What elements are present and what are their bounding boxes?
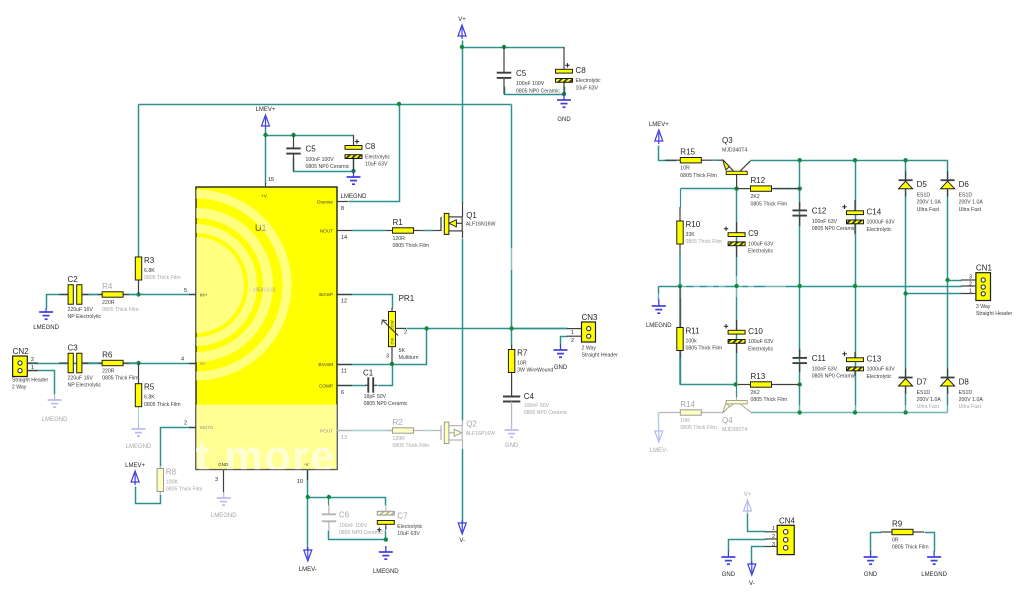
svg-text:0805 NP0 Ceramic: 0805 NP0 Ceramic [306,164,350,170]
svg-text:R14: R14 [680,400,695,409]
power LMEV- R14 [655,428,663,442]
diode D5 [899,171,913,197]
svg-text:2K2: 2K2 [751,194,760,200]
svg-text:MUTE: MUTE [200,425,213,430]
U1 pin 4 stub [189,363,196,365]
wire R9 right to LMEGND [925,533,935,552]
wire Q2 source to V- [462,449,464,525]
wire D6 D8 column [947,278,949,413]
svg-text:8: 8 [341,206,344,212]
svg-text:CN3: CN3 [582,313,599,322]
junction C5b top [291,133,295,137]
svg-text:0805 NP0 Ceramic: 0805 NP0 Ceramic [339,530,383,536]
svg-text:R3: R3 [144,256,155,265]
svg-text:2 Way: 2 Way [582,346,597,352]
svg-text:13: 13 [341,435,347,441]
svg-text:10R: 10R [517,361,527,367]
svg-text:BIASM: BIASM [318,362,333,367]
wire R14 to LMEV- [658,413,660,429]
wire C2 left to ground [47,295,69,309]
ground GND C4 [505,424,519,437]
wire V+ to CN4 pin1 [748,513,766,532]
transistor Q2 [441,422,462,443]
ground LMEGND CN2 [48,394,62,407]
U1 pin 6 stub [337,385,352,387]
power LMEV+ right [655,130,663,144]
svg-text:0805 Thick Film: 0805 Thick Film [892,545,929,551]
transistor Q1 [441,213,462,234]
svg-text:LMEGND: LMEGND [921,572,947,578]
ground GND R9 [864,551,878,564]
wire wash watermark feedback line [504,248,520,270]
wire C1 to BIASM node [378,365,393,386]
svg-text:C5: C5 [516,69,527,78]
wire C14 column [855,161,857,287]
U1 pin 13 stub [337,430,352,432]
svg-text:GND: GND [505,443,519,449]
svg-text:LMEGND: LMEGND [126,444,152,450]
svg-text:4: 4 [181,357,184,363]
junction rail C14 [853,158,857,162]
resistor R13 [738,382,800,387]
svg-text:R13: R13 [751,372,766,381]
wire R11 column [681,287,736,385]
svg-text:100nF 50V: 100nF 50V [524,403,550,409]
svg-text:NP Electrolytic: NP Electrolytic [68,382,102,388]
svg-text:Q3: Q3 [722,136,733,145]
junction bottom C13 [853,410,857,414]
svg-text:PR1: PR1 [399,294,415,303]
junction Q3 base [734,186,738,190]
wire C5b C8b bottom LMEGND [294,159,354,172]
wire C6 C7 bottom join [329,531,386,540]
svg-text:0805 Thick Film: 0805 Thick Film [144,402,181,408]
junction C7 gnd [384,537,388,541]
svg-text:0805 Thick Film: 0805 Thick Film [102,376,139,382]
junction R13 node [733,382,737,386]
svg-text:6.8K: 6.8K [144,268,155,274]
svg-text:33K: 33K [686,232,696,238]
svg-text:R8: R8 [166,468,177,477]
svg-text:12: 12 [341,299,347,305]
wire output net [407,328,568,330]
svg-text:IN-: IN- [200,361,207,366]
svg-text:220uF 16V: 220uF 16V [68,307,94,313]
svg-text:1000uF 63V: 1000uF 63V [867,367,896,373]
svg-text:C9: C9 [748,229,759,238]
junction R12 C12 [798,186,802,190]
resistor R12 [738,186,800,191]
svg-text:ES1D: ES1D [917,193,931,199]
junction bottom C11 [798,410,802,414]
svg-text:C8: C8 [365,142,376,151]
svg-text:0805 NP0 Ceramic: 0805 NP0 Ceramic [516,88,560,94]
svg-text:R15: R15 [680,148,695,157]
svg-text:ES1D: ES1D [917,390,931,396]
svg-text:NP Electrolytic: NP Electrolytic [68,314,102,320]
capacitor C2 [59,285,91,305]
svg-text:3: 3 [969,275,972,281]
junction rail C12 [798,158,802,162]
svg-text:Straight Header: Straight Header [582,353,619,359]
svg-text:MJD340T4: MJD340T4 [722,148,747,154]
svg-text:LMEV-: LMEV- [299,567,317,573]
svg-text:C5: C5 [306,145,317,154]
junction LMEV+ node [263,133,267,137]
capacitor C5 [497,47,512,94]
wire mid rail to ground [658,287,660,301]
svg-text:Osense: Osense [317,200,334,205]
wire BIASP to PR1 [338,295,393,309]
wire V+ rail top [463,47,565,49]
capacitor C4 [503,393,520,424]
resistor R6 [82,360,139,365]
svg-text:BIASP: BIASP [319,292,333,297]
wire CN2 pin1 to ground [28,371,55,395]
svg-text:2: 2 [772,534,775,540]
resistor R4 [82,292,139,297]
svg-text:GND: GND [554,365,568,371]
svg-text:CN1: CN1 [976,264,993,273]
wire PR1 wiper loop [398,329,427,365]
wire C9 column [736,189,738,287]
junction -V C6 [327,495,331,499]
svg-text:6: 6 [341,390,344,396]
capacitor C8 [556,47,573,94]
svg-text:10R: 10R [680,418,690,424]
svg-text:C13: C13 [867,354,882,363]
wire Q1 source to Q2 drain [462,239,464,421]
svg-text:100K: 100K [166,480,179,486]
svg-text:Electrolytic: Electrolytic [576,78,601,84]
svg-text:ES1D: ES1D [959,193,973,199]
capacitor C1 [365,377,377,392]
svg-text:R6: R6 [102,351,113,360]
svg-text:10: 10 [297,479,303,485]
svg-text:2 Way: 2 Way [12,385,27,391]
svg-text:5K: 5K [399,348,406,354]
svg-text:R12: R12 [751,176,766,185]
svg-text:V+: V+ [744,492,752,498]
svg-text:C7: C7 [397,512,408,521]
svg-text:CN2: CN2 [13,347,30,356]
svg-text:2: 2 [31,357,34,363]
svg-text:C12: C12 [812,207,827,216]
power V+ top [458,25,466,39]
wire V+ arrow stem to Q1 drain [462,41,464,203]
svg-text:CW: CW [390,338,395,345]
ground LMEGND R9 [927,551,941,564]
wire -V to C6 C7 [308,498,386,506]
wire R10 top lead [680,189,682,208]
svg-text:C4: C4 [524,392,535,401]
svg-text:100nF 100V: 100nF 100V [339,523,368,529]
wire POUT to R2 [338,430,393,432]
svg-text:C1: C1 [363,369,374,378]
junction BIASM PR1 [390,362,394,366]
svg-text:LMEV+: LMEV+ [125,463,145,469]
capacitor C13 [842,352,863,376]
svg-text:C8: C8 [576,66,587,75]
junction mid R11 [678,284,682,288]
U1 pin 3 stub [223,470,225,493]
svg-text:LMEGND: LMEGND [341,194,367,200]
wire Q1 drain stub [462,202,464,217]
svg-text:100nF 100V: 100nF 100V [306,157,335,163]
junction mid C11 [798,284,802,288]
wire Q1 source stub [462,231,464,238]
capacitor C6 [322,505,337,530]
resistor R2 [352,428,441,433]
svg-text:3: 3 [215,477,218,483]
U1 pin 2 stub [189,427,196,429]
wire C11 column [799,287,801,413]
U1 pin 12 stub [337,294,352,296]
wire BIASM to PR1 bottom [338,364,398,366]
svg-text:220R: 220R [102,369,115,375]
svg-text:LMEGND: LMEGND [211,513,237,519]
svg-text:Ultra Fast: Ultra Fast [917,404,940,410]
svg-text:V+: V+ [458,17,466,23]
capacitor C3 [59,353,91,373]
svg-text:R7: R7 [517,349,528,358]
wire feedback left vertical to R3 [138,105,140,259]
svg-text:100uF 63V: 100uF 63V [748,339,774,345]
junction mid C10 [734,284,738,288]
svg-text:5: 5 [184,288,187,294]
wire CN1 pin1 [906,293,962,295]
wire LMEV+ arrow stem / pin15 [265,129,267,184]
svg-text:18pF 50V: 18pF 50V [364,394,387,400]
wire Osense vertical [349,105,400,202]
svg-text:COMP: COMP [319,383,333,388]
svg-text:ALF16P16W: ALF16P16W [466,431,496,437]
svg-text:D8: D8 [959,378,970,387]
ground LMEGND C2 [39,308,53,319]
power V- CN4 [748,561,756,575]
svg-text:120R: 120R [393,436,406,442]
wire Q2 drain stub [462,420,464,426]
wire COMP to C1 [338,385,366,387]
svg-text:ALF16N16W: ALF16N16W [466,221,496,227]
svg-text:200V 1.0A: 200V 1.0A [959,200,984,206]
svg-text:100nF 63V: 100nF 63V [812,366,838,372]
svg-text:IN+: IN+ [200,293,208,298]
ground GND under C8 [557,94,571,107]
svg-text:0805 Thick Film: 0805 Thick Film [680,425,717,431]
svg-text:GND: GND [218,462,229,467]
svg-text:C14: C14 [867,207,882,216]
svg-text:0805 Thick Film: 0805 Thick Film [751,201,788,207]
svg-text:200V 1.0A: 200V 1.0A [917,397,942,403]
connector CN2 [13,356,38,377]
junction R13 C11 [798,382,802,386]
svg-text:LMEGND: LMEGND [373,569,399,575]
svg-text:D6: D6 [959,180,970,189]
svg-text:Ultra Fast: Ultra Fast [959,404,982,410]
svg-text:100nF 63V: 100nF 63V [812,219,838,225]
svg-text:Q4: Q4 [722,416,733,425]
svg-text:10R: 10R [680,166,690,172]
wire C5 C8 bottom join [505,87,565,95]
wire Q3 collector rail [751,161,948,278]
svg-text:0805 Thick Film: 0805 Thick Film [144,275,181,281]
wire Q3 base node [681,188,737,190]
ground LMEGND pin3 [217,492,231,505]
svg-text:2: 2 [404,330,407,336]
junction bottom D7 [903,410,907,414]
U1 pin 5 stub [189,294,196,296]
junction -V pin10 [306,495,310,499]
svg-text:LMEV+: LMEV+ [649,122,669,128]
junction R5 IN- [136,361,140,365]
svg-text:LMEGND: LMEGND [33,325,59,331]
wire IN+ net [83,294,197,296]
svg-text:Electrolytic: Electrolytic [867,374,892,380]
svg-text:C10: C10 [748,327,763,336]
svg-text:+V: +V [261,194,268,199]
potentiometer PR1 [382,308,406,364]
svg-text:120R: 120R [393,236,406,242]
capacitor C9 [724,222,745,257]
wire Q4 base lead [736,385,738,398]
wire mid GND rail [659,286,962,288]
wire MUTE to R8 [161,428,197,467]
resistor R7 [508,345,514,393]
svg-text:0805 Thick Film: 0805 Thick Film [686,346,723,352]
svg-text:0805 Thick Film: 0805 Thick Film [393,443,430,449]
junction rail D5 [903,158,907,162]
svg-text:NOUT: NOUT [320,229,333,234]
wire R7 C4 column top [511,329,513,346]
svg-text:14: 14 [341,235,347,241]
wire R12 to C12 line [775,188,800,190]
svg-text:R1: R1 [393,218,404,227]
svg-text:CN4: CN4 [779,517,796,526]
svg-text:1: 1 [772,526,775,532]
svg-text:0805 NP0 Ceramic: 0805 NP0 Ceramic [812,374,856,380]
resistor R11 [677,286,683,385]
svg-text:10uF 63V: 10uF 63V [397,531,420,537]
capacitor C10 [724,320,745,353]
wire R9 left to GND [871,533,882,552]
svg-text:R10: R10 [686,220,701,229]
U1 pin 15 stub [265,183,267,187]
diode D8 [941,369,955,395]
capacitor C11 [792,349,807,372]
svg-text:0R: 0R [892,538,899,544]
wire C12 column [799,161,801,287]
resistor R9 [881,529,924,534]
resistor R3 [135,257,141,295]
svg-text:0805 Thick Film: 0805 Thick Film [166,487,203,493]
junction C8 bottom gnd [562,92,566,96]
svg-text:0805 NP0 Ceramic: 0805 NP0 Ceramic [524,410,568,416]
junction C5 top [502,45,506,49]
svg-text:V-: V- [459,538,465,544]
svg-text:220uF 16V: 220uF 16V [68,375,94,381]
svg-text:R11: R11 [686,327,701,336]
junction CN1 pin1 D7 [903,291,907,295]
wire CN4 pin2 to GND [729,540,766,552]
connector CN1 [961,273,991,301]
svg-text:220R: 220R [102,300,115,306]
U1 pin 10 stub [307,470,309,481]
op-amp U1 LME49830 body [105,187,337,481]
wire wash watermark bottom rail [748,405,950,420]
svg-text:2: 2 [969,282,972,288]
svg-text:Straight Header: Straight Header [12,378,49,384]
junction CN1 pin3 D6 [945,278,949,282]
svg-text:10uF 63V: 10uF 63V [576,85,599,91]
svg-text:C6: C6 [339,511,350,520]
junction output R7 [509,326,513,330]
svg-text:V-: V- [749,581,755,587]
svg-text:2K2: 2K2 [751,390,760,396]
power LMEV+ mid [262,115,270,129]
wire LMEV+ rail [266,135,354,137]
svg-text:LMEGND: LMEGND [646,323,672,329]
junction mid C13 [853,284,857,288]
ground GND CN4 [721,551,735,564]
svg-text:GND: GND [864,572,878,578]
svg-text:C3: C3 [68,343,79,352]
svg-text:3W WireWound: 3W WireWound [517,368,553,374]
svg-text:3 Way: 3 Way [976,304,991,310]
svg-text:0805 Thick Film: 0805 Thick Film [751,397,788,403]
ground GND CN3 [554,344,568,357]
svg-text:Q1: Q1 [466,211,477,220]
svg-text:200V 1.0A: 200V 1.0A [959,397,984,403]
svg-text:3: 3 [386,354,389,360]
wire R5 bottom to ground [138,406,140,424]
U1 pin 8 stub [337,201,348,203]
svg-text:100nF 100V: 100nF 100V [516,81,545,87]
svg-text:Straight Header: Straight Header [976,311,1013,317]
ground LMEGND C6 C7 [379,546,393,559]
svg-text:Electrolytic: Electrolytic [397,524,422,530]
diode D7 [899,369,913,395]
svg-text:0805 NP0 Ceramic: 0805 NP0 Ceramic [364,401,408,407]
ground LMEGND R5 [132,423,146,436]
connector CN3 [567,322,596,342]
wire IN- net [28,363,197,365]
wire CN3 pin1 [512,328,568,330]
svg-text:R2: R2 [393,418,404,427]
svg-text:15: 15 [268,177,274,183]
svg-text:GND: GND [557,117,571,123]
svg-text:100k: 100k [686,339,698,345]
svg-text:R9: R9 [892,520,903,529]
wire feedback top horizontal [139,104,512,106]
junction PR1 wiper [424,326,428,330]
capacitor C12 [792,202,807,226]
capacitor C5 bypass LMEV+ [286,135,301,171]
diode D6 [941,171,955,197]
svg-text:3: 3 [772,542,775,548]
svg-text:0805 Thick Film: 0805 Thick Film [686,239,723,245]
capacitor C14 [842,200,863,234]
power LMEV- pin10 [304,547,312,561]
wire R8 to LMEV+ [136,487,161,504]
power V+ CN4 [744,500,752,514]
junction V+ rail [460,45,464,49]
svg-text:Electrolytic: Electrolytic [748,346,773,352]
resistor R10 [677,207,683,286]
transistor Q4 [718,397,751,413]
svg-text:LMEGND: LMEGND [42,417,68,423]
junction feedback Osense [397,102,401,106]
